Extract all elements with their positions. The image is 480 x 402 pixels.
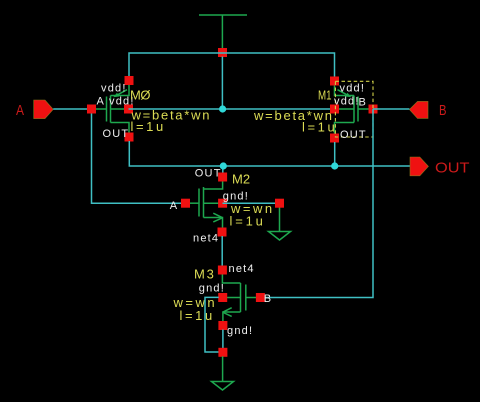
- svg-text:l=1u: l=1u: [180, 308, 215, 323]
- svg-text:vdd!: vdd!: [340, 83, 366, 95]
- svg-text:net4: net4: [193, 232, 219, 244]
- pin square M3 drain: [218, 266, 227, 275]
- wire A pin to M0 gate: [53, 108, 91, 110]
- wire B branch down to M3 gate: [260, 109, 373, 298]
- wire bulk net between M0 and M1: [129, 108, 335, 110]
- pin square M0 source: [125, 76, 134, 85]
- svg-text:A: A: [170, 200, 179, 212]
- svg-text:vdd!: vdd!: [334, 96, 360, 108]
- pin square M3 source: [218, 321, 227, 330]
- wire OUT net: [129, 141, 410, 173]
- svg-text:B: B: [439, 102, 447, 119]
- svg-text:B: B: [264, 293, 273, 305]
- transistor M1 (pmos, mirrored) body: [335, 85, 374, 134]
- svg-text:gnd!: gnd!: [227, 325, 253, 337]
- pin OUT (output): [410, 157, 428, 176]
- wire M3 source to gnd: [222, 330, 224, 350]
- wire B pin to M1 gate: [373, 108, 409, 110]
- wire M3 bulk loop to gnd: [205, 297, 219, 352]
- pin square M2 drain: [218, 173, 227, 182]
- svg-text:OUT: OUT: [435, 160, 470, 177]
- pin square M1 drain: [330, 134, 339, 143]
- power symbol vdd!: [199, 15, 247, 49]
- svg-text:gnd!: gnd!: [199, 283, 225, 295]
- pin square M1 bulk: [330, 105, 339, 114]
- pin square M0 bulk: [124, 105, 133, 114]
- svg-text:l=1u: l=1u: [131, 119, 166, 134]
- wire vdd rail: [129, 53, 335, 77]
- pin B (input): [409, 101, 428, 118]
- ground symbol gnd! at M2 bulk: [269, 207, 291, 240]
- transistor M0 source arrow: [113, 93, 119, 97]
- junction dot OUT at M2 drain: [220, 162, 227, 169]
- wire vdd stem to bulk net: [221, 57, 223, 110]
- svg-text:M3: M3: [194, 266, 216, 281]
- svg-text:OUT: OUT: [340, 129, 367, 141]
- svg-text:M2: M2: [232, 171, 250, 186]
- pin square M2 source: [218, 228, 227, 237]
- junction dot vdd/bulk net: [219, 105, 226, 112]
- svg-text:net4: net4: [229, 263, 255, 275]
- transistor M1 source arrow: [345, 93, 351, 97]
- svg-text:B: B: [359, 96, 368, 108]
- pin A (input): [34, 100, 54, 119]
- svg-text:A: A: [16, 102, 24, 119]
- pin square M1 gate: [369, 105, 378, 114]
- svg-text:M1: M1: [318, 88, 332, 103]
- pin square gnd bottom: [218, 348, 227, 357]
- svg-text:l=1u: l=1u: [302, 119, 337, 134]
- transistor M0 (pmos) body: [92, 85, 130, 134]
- pin square M3 gate: [256, 293, 265, 302]
- transistor M3 (nmos, mirrored) body: [222, 274, 260, 322]
- svg-text:l=1u: l=1u: [230, 213, 266, 228]
- pin square M1 source: [330, 77, 339, 86]
- svg-text:MØ: MØ: [130, 88, 150, 103]
- pin square vdd stem: [218, 48, 227, 57]
- wire A branch down to M2 gate: [92, 109, 186, 203]
- selection box around M1: [335, 81, 373, 137]
- pin square M0 gate: [87, 105, 96, 114]
- pin square gnd at M2 bulk: [275, 199, 284, 208]
- pin square M2 gate: [181, 199, 190, 208]
- svg-text:vdd!: vdd!: [101, 83, 127, 95]
- svg-text:OUT: OUT: [195, 168, 222, 180]
- svg-text:A: A: [97, 95, 106, 107]
- svg-text:OUT: OUT: [103, 128, 130, 140]
- transistor M2 (nmos) body: [186, 181, 223, 228]
- pin square M2 bulk: [218, 199, 227, 208]
- junction dot OUT at M1 drain: [331, 162, 338, 169]
- wire M2 bulk to gnd: [223, 202, 280, 204]
- ground symbol gnd! bottom: [212, 356, 234, 390]
- pin square M0 drain: [125, 133, 134, 142]
- pin square M3 bulk: [218, 293, 227, 302]
- wire net4 M2 source to M3 drain: [221, 236, 223, 266]
